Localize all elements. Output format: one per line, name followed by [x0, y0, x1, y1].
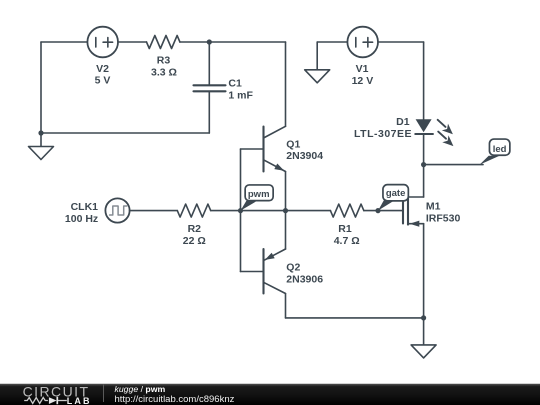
svg-text:http://circuitlab.com/c896knz: http://circuitlab.com/c896knz: [115, 394, 235, 405]
CLK1 square wave symbol: [110, 206, 127, 215]
svg-text:5 V: 5 V: [95, 75, 111, 87]
svg-text:Q2: Q2: [286, 262, 300, 274]
wire CLK1 to R2: [130, 210, 178, 212]
node junction dot emitter output: [283, 208, 288, 213]
wire emitter node to R1: [286, 210, 331, 212]
footer separator line: [103, 385, 105, 403]
resistor R1 zigzag: [330, 204, 363, 217]
node junction dot led: [421, 162, 426, 167]
ground symbol bottom right: [411, 345, 436, 358]
flag led tail: [480, 156, 500, 165]
base rail connecting Q1 and Q2 bases: [240, 149, 242, 272]
wire left rail vertical: [40, 42, 42, 133]
ground symbol left: [29, 147, 54, 160]
wire V1 minus to ground corner: [317, 41, 347, 43]
M1 gate lead: [378, 210, 403, 212]
svg-text:R1: R1: [338, 223, 352, 235]
logo resistor zigzag: [24, 398, 48, 404]
M1 source lead: [408, 223, 424, 225]
Q1 emitter rail down to pwm node: [285, 172, 287, 211]
wire base node to emitter node: [241, 210, 286, 212]
Q2 emitter arrowhead: [265, 253, 275, 260]
node junction dot at left rail / ground: [38, 130, 43, 135]
Q1 collector diagonal: [264, 126, 286, 138]
svg-text:Q1: Q1: [286, 139, 300, 151]
M1 channel bar: [407, 197, 409, 225]
svg-text:4.7 Ω: 4.7 Ω: [334, 235, 360, 247]
voltage source V1 circle: [347, 27, 378, 58]
svg-text:M1: M1: [426, 201, 441, 213]
wire V2 to R3: [118, 41, 147, 43]
ground stem bottom right: [423, 318, 425, 345]
M1 source rail down to bottom wire: [423, 224, 425, 318]
logo diode symbol: [49, 397, 57, 404]
node junction dot at C1 top: [207, 39, 212, 44]
node junction dot pwm: [238, 208, 243, 213]
capacitor C1 top plate: [194, 84, 226, 86]
svg-text:3.3 Ω: 3.3 Ω: [151, 67, 177, 79]
flag pwm box: [245, 185, 273, 201]
capacitor C1 top lead: [208, 42, 210, 85]
node junction dot bottom ground: [421, 315, 426, 320]
footer bar: [0, 382, 540, 405]
svg-text:2N3906: 2N3906: [286, 273, 323, 285]
voltage source V2 circle: [87, 27, 118, 58]
LED light arrow 2: [438, 132, 453, 147]
V1 minus bar: [355, 38, 357, 48]
transistor Q2 base bar: [262, 249, 264, 294]
flag gate box: [383, 185, 408, 201]
bottom wire Q2 to ground: [286, 317, 424, 319]
right rail down to D1: [423, 42, 425, 119]
Q2 collector diagonal: [264, 282, 286, 293]
svg-text:R3: R3: [157, 55, 171, 67]
ground symbol V1: [305, 70, 330, 83]
svg-text:LAB: LAB: [67, 396, 92, 405]
svg-text:V2: V2: [96, 63, 109, 75]
ground stem under V1: [316, 42, 318, 70]
svg-text:led: led: [493, 144, 507, 155]
svg-text:V1: V1: [356, 63, 369, 75]
LED D1 triangle: [416, 119, 432, 132]
capacitor C1 bottom lead: [208, 91, 210, 133]
wire R1 to gate node: [364, 210, 378, 212]
LED D1 cathode bar: [415, 133, 433, 135]
V1 plus sign: [363, 38, 373, 48]
node junction dot gate: [375, 208, 380, 213]
svg-text:R2: R2: [188, 223, 202, 235]
MOSFET M1 drain lead: [408, 196, 424, 198]
wire led node to led flag: [424, 164, 483, 166]
transistor Q1 base bar: [262, 127, 264, 172]
svg-text:22 Ω: 22 Ω: [183, 235, 206, 247]
svg-text:pwm: pwm: [248, 189, 270, 200]
Q2 collector rail down: [285, 294, 287, 318]
capacitor C1 bottom plate: [194, 90, 226, 92]
svg-text:IRF530: IRF530: [426, 212, 461, 224]
V2 plus sign: [103, 38, 113, 48]
wire top-left from left rail to V2 minus terminal: [41, 41, 87, 43]
resistor R3 zigzag: [147, 36, 180, 49]
M1 gate bar: [402, 202, 404, 224]
svg-text:12 V: 12 V: [352, 75, 374, 87]
svg-text:gate: gate: [386, 188, 406, 199]
svg-text:D1: D1: [396, 116, 410, 128]
wire V1 plus to right rail: [378, 41, 424, 43]
svg-text:1 mF: 1 mF: [228, 90, 253, 102]
wire R2 to base node: [211, 210, 241, 212]
resistor R2 zigzag: [177, 204, 210, 217]
Q1 emitter arrowhead: [274, 164, 284, 171]
wire Q1 collector rail down from top wire: [285, 42, 287, 126]
V2 minus bar: [95, 38, 97, 48]
Q2 emitter rail from output node: [285, 211, 287, 249]
M1 source arrowhead: [410, 221, 420, 227]
LED light arrow 1: [438, 120, 453, 135]
Q1 emitter diagonal: [264, 160, 286, 172]
svg-text:LTL-307EE: LTL-307EE: [354, 128, 412, 140]
svg-text:100 Hz: 100 Hz: [65, 213, 98, 225]
svg-text:CLK1: CLK1: [71, 201, 99, 213]
svg-text:2N3904: 2N3904: [286, 150, 323, 162]
Q2 base lead: [241, 271, 264, 273]
svg-text:C1: C1: [228, 78, 242, 90]
wire bottom-left horizontal: [41, 132, 209, 134]
ground stem below V2 loop: [40, 133, 42, 147]
wire R3 to Q1 collector corner: [180, 41, 286, 43]
flag pwm tail: [241, 201, 258, 211]
flag led box: [489, 139, 509, 155]
wire D1 cathode down to drain: [423, 134, 425, 197]
Q2 emitter diagonal: [264, 249, 286, 261]
svg-text:kugge / pwm: kugge / pwm: [115, 384, 166, 394]
flag gate tail: [378, 200, 395, 210]
clock source CLK1 circle: [105, 198, 129, 222]
Q1 base lead: [241, 148, 264, 150]
